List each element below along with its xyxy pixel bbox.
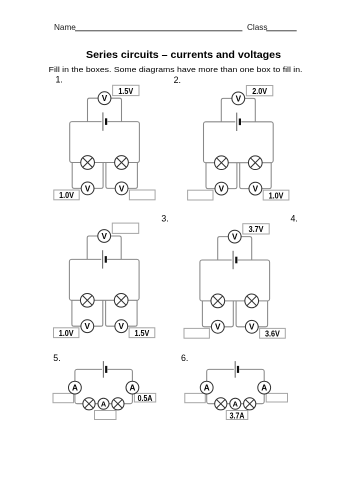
svg-text:Name: Name	[54, 23, 76, 32]
svg-text:1.: 1.	[56, 75, 63, 85]
svg-text:V: V	[249, 323, 255, 332]
circuit 4 right voltmeter branch wire	[236, 301, 267, 327]
battery B3 short plate (negative)	[105, 256, 107, 263]
voltmeter V4a (battery)	[228, 230, 241, 243]
svg-text:0.5A: 0.5A	[138, 393, 153, 403]
answer box 3-left 1.0V	[54, 328, 79, 338]
battery B2 long plate (positive)	[236, 113, 238, 131]
ammeter A5b (right)	[126, 381, 139, 394]
svg-text:6.: 6.	[181, 353, 188, 363]
svg-text:3.7V: 3.7V	[249, 224, 264, 234]
battery B6 long plate (positive)	[234, 361, 236, 378]
lamp L3b	[114, 293, 128, 307]
lamp L1b	[115, 156, 129, 170]
voltmeter V4b (left lamp)	[211, 320, 224, 333]
ammeter A5c (middle)	[98, 398, 109, 409]
svg-text:V: V	[215, 323, 221, 332]
lamp L6b	[244, 398, 256, 410]
svg-text:1.5V: 1.5V	[135, 328, 150, 338]
answer box 3-top (empty)	[112, 223, 138, 233]
battery B5 short plate (negative)	[105, 366, 107, 373]
svg-text:V: V	[253, 185, 259, 194]
answer box 1-right (empty)	[129, 190, 155, 200]
voltmeter V2a (battery)	[232, 92, 245, 105]
battery B2: white gap in wire	[235, 120, 241, 124]
svg-text:V: V	[101, 232, 107, 241]
svg-text:2.0V: 2.0V	[252, 86, 267, 96]
answer box 2-right 1.0V	[263, 190, 289, 200]
answer box 5-left (empty)	[53, 393, 74, 402]
answer box 6-right (empty)	[266, 393, 287, 402]
svg-text:A: A	[129, 384, 135, 393]
svg-text:3.: 3.	[161, 214, 168, 224]
voltmeter V2c (right lamp)	[249, 182, 262, 195]
svg-text:Series circuits – currents and: Series circuits – currents and voltages	[86, 50, 281, 61]
lamp L5a	[83, 398, 95, 410]
lamp L5b	[112, 398, 124, 410]
circuit 4 voltmeter branch wire	[218, 237, 252, 260]
battery B6 short plate (negative)	[237, 366, 239, 373]
svg-text:1.5V: 1.5V	[118, 86, 133, 96]
answer box 2-left (empty)	[188, 190, 213, 200]
svg-text:1.0V: 1.0V	[59, 190, 74, 200]
circuit 2 voltmeter branch wire	[221, 98, 255, 121]
svg-text:V: V	[119, 184, 125, 193]
svg-text:Fill in the boxes. Some diagra: Fill in the boxes. Some diagrams have mo…	[49, 65, 303, 74]
svg-text:Class: Class	[247, 23, 267, 32]
lamp L4a	[211, 294, 225, 308]
svg-text:5.: 5.	[53, 353, 60, 363]
circuit 1 left voltmeter branch wire	[72, 163, 103, 189]
svg-text:1.0V: 1.0V	[59, 328, 74, 338]
ammeter A6b (right)	[258, 381, 271, 394]
voltmeter V3c (right lamp)	[115, 320, 128, 333]
voltmeter V2b (left lamp)	[215, 182, 228, 195]
svg-text:A: A	[233, 400, 239, 409]
answer box 1-top 1.5V	[113, 85, 139, 95]
battery B3: white gap in wire	[101, 257, 107, 261]
battery B2 short plate (negative)	[239, 119, 241, 126]
battery B4 long plate (positive)	[232, 251, 234, 269]
voltmeter V3a (battery)	[98, 230, 111, 243]
svg-text:3.6V: 3.6V	[265, 329, 280, 339]
answer box 6-bottom 3.7A	[226, 411, 248, 420]
Class underline	[266, 30, 297, 32]
battery B1: white gap in wire	[102, 120, 108, 124]
answer box 5-right 0.5A	[134, 393, 155, 402]
circuit 3 left voltmeter branch wire	[72, 300, 103, 326]
circuit 4 left voltmeter branch wire	[202, 301, 233, 327]
svg-text:V: V	[119, 322, 125, 331]
answer box 4-right 3.6V	[260, 328, 286, 338]
answer box 4-top 3.7V	[243, 224, 269, 234]
voltmeter V1c (right lamp)	[115, 182, 128, 195]
battery B1 long plate (positive)	[102, 112, 104, 130]
battery B4 short plate (negative)	[235, 257, 237, 264]
lamp L2b	[248, 156, 262, 170]
voltmeter V1a (battery)	[98, 92, 111, 105]
answer box 3-right 1.5V	[129, 328, 155, 338]
lamp L4b	[245, 294, 259, 308]
battery B1 short plate (negative)	[105, 118, 107, 125]
circuit 2 main loop wire	[204, 122, 274, 163]
answer box 2-top 2.0V	[246, 86, 272, 96]
circuit 6 main loop wire	[207, 369, 265, 403]
circuit 3 right voltmeter branch wire	[106, 300, 137, 326]
answer box 6-left (empty)	[185, 393, 206, 402]
battery B5 long plate (positive)	[102, 361, 104, 378]
svg-text:A: A	[204, 384, 210, 393]
voltmeter V4c (right lamp)	[245, 320, 258, 333]
answer box 5-bottom (empty)	[95, 411, 117, 420]
lamp L6a	[215, 398, 227, 410]
svg-text:2.: 2.	[174, 75, 181, 85]
svg-text:A: A	[72, 384, 78, 393]
battery B5: white gap in wire	[102, 367, 108, 371]
battery B3 long plate (positive)	[102, 250, 104, 268]
circuit 2 right voltmeter branch wire	[240, 163, 272, 189]
lamp L2a	[215, 156, 229, 170]
circuit 1 main loop wire	[70, 122, 140, 163]
ammeter A5a (left)	[69, 381, 82, 394]
svg-text:V: V	[232, 233, 238, 242]
svg-text:3.7A: 3.7A	[230, 410, 245, 420]
voltmeter V1b (left lamp)	[81, 182, 94, 195]
svg-text:V: V	[85, 322, 91, 331]
circuit 3 voltmeter branch wire	[87, 236, 121, 259]
answer box 1-left 1.0V	[54, 190, 79, 200]
svg-text:V: V	[102, 94, 108, 103]
circuit 1 right voltmeter branch wire	[106, 163, 137, 189]
lamp L3a	[80, 293, 94, 307]
svg-text:1.0V: 1.0V	[269, 190, 284, 200]
battery B4: white gap in wire	[232, 258, 238, 262]
ammeter A6c (middle)	[230, 398, 241, 409]
circuit 2 left voltmeter branch wire	[206, 163, 237, 189]
svg-text:A: A	[101, 400, 107, 409]
circuit 1 voltmeter branch wire	[88, 98, 122, 121]
svg-text:A: A	[261, 384, 267, 393]
circuit 3 main loop wire	[69, 259, 139, 300]
lamp L1a	[81, 156, 95, 170]
Name underline	[75, 30, 242, 32]
battery B6: white gap in wire	[234, 367, 240, 371]
svg-text:4.: 4.	[291, 214, 298, 224]
svg-text:V: V	[236, 94, 242, 103]
circuit 5 main loop wire	[75, 369, 132, 403]
svg-text:V: V	[219, 185, 225, 194]
ammeter A6a (left)	[200, 381, 213, 394]
circuit 4 main loop wire	[200, 260, 270, 301]
voltmeter V3b (left lamp)	[81, 320, 94, 333]
answer box 4-left (empty)	[184, 328, 209, 338]
svg-text:V: V	[85, 184, 91, 193]
